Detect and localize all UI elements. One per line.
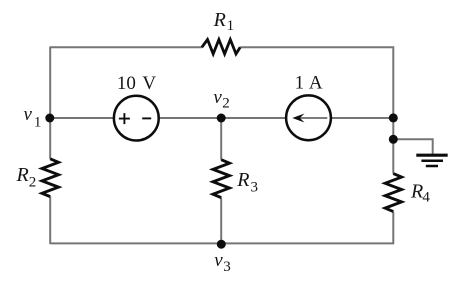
current source arrowhead [292, 114, 304, 123]
wire left lower (R2 to bottom) [49, 196, 51, 244]
svg-text:2: 2 [29, 175, 37, 191]
node right lower dot (ground junction) [389, 135, 398, 144]
wire top right segment [240, 46, 394, 48]
svg-text:1: 1 [295, 73, 305, 94]
svg-text:v: v [214, 250, 223, 271]
node v3 dot [217, 240, 226, 249]
node v1 dot [45, 114, 54, 123]
wire v2 to R3 [220, 118, 222, 160]
svg-text:V: V [142, 73, 156, 94]
svg-text:v: v [24, 104, 33, 125]
svg-text:R: R [16, 164, 29, 186]
svg-text:v: v [213, 87, 222, 108]
wire voltage source to v2 [159, 117, 222, 119]
resistor R1 [202, 40, 240, 54]
svg-text:3: 3 [251, 179, 259, 195]
wire left mid (v1 to R2) [49, 118, 51, 159]
ground symbol [416, 155, 447, 166]
current source I1 circle [286, 95, 331, 140]
svg-text:4: 4 [422, 190, 430, 206]
svg-text:A: A [309, 73, 323, 94]
svg-text:R: R [236, 169, 249, 191]
wire current source to right node [331, 117, 394, 119]
svg-text:10: 10 [117, 73, 136, 94]
svg-text:R: R [410, 180, 423, 202]
wire right lower (R4 to bottom) [392, 212, 394, 244]
resistor R3 [213, 160, 230, 198]
current source arrow shaft [298, 117, 328, 119]
svg-text:R: R [213, 9, 226, 31]
wire R3 to v3 [220, 198, 222, 244]
wire v1 to voltage source [50, 117, 114, 119]
svg-text:1: 1 [227, 18, 235, 34]
wire bottom [50, 242, 394, 244]
svg-text:3: 3 [223, 259, 231, 275]
voltage source minus sign [142, 117, 151, 119]
voltage source plus sign [119, 113, 130, 124]
wire top left segment [50, 46, 202, 48]
svg-text:2: 2 [222, 96, 230, 112]
node right upper dot [389, 113, 398, 122]
resistor R2 [42, 159, 59, 197]
wire v2 to current source [221, 117, 286, 119]
voltage source V1 circle [114, 96, 159, 141]
wire right node to ground [393, 139, 432, 154]
node v2 dot [217, 114, 226, 123]
resistor R4 [385, 174, 402, 212]
svg-text:1: 1 [34, 114, 42, 130]
wire right upper [392, 47, 394, 174]
wire left upper [49, 47, 51, 119]
